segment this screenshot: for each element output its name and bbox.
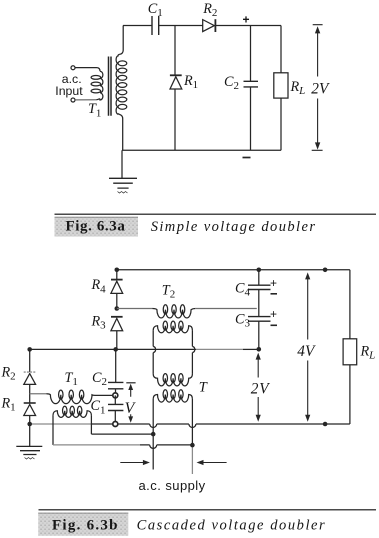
wire bottom rail <box>122 149 281 151</box>
node A (C1/R1/R2 junction) wire <box>174 26 176 76</box>
capacitor C2 (top) <box>250 26 252 82</box>
svg-text:Input: Input <box>55 84 83 98</box>
caption box <box>55 217 139 237</box>
wire primary bottom to terminal <box>75 99 96 101</box>
diode R1 (top) <box>170 74 182 76</box>
node C1C2 junction <box>113 393 118 398</box>
svg-text:R4: R4 <box>91 277 107 295</box>
wire top rail mid segment <box>159 25 203 27</box>
diode chain left: node top <box>27 347 32 352</box>
ac column right lower <box>191 399 193 447</box>
wire T2 upper to C3/C4 junction <box>195 308 256 310</box>
svg-text:RL: RL <box>290 79 306 97</box>
svg-text:C2: C2 <box>224 74 239 92</box>
transformer core <box>109 57 112 116</box>
svg-text:R2: R2 <box>202 1 217 19</box>
svg-text:Cascaded voltage doubler: Cascaded voltage doubler <box>137 518 327 534</box>
transformer T lower winding <box>153 395 192 403</box>
ac input terminal top <box>71 66 75 70</box>
svg-text:2V: 2V <box>251 380 270 397</box>
diode R3 <box>111 316 123 318</box>
diode R2 (top) <box>203 20 215 32</box>
svg-text:R1: R1 <box>183 73 198 91</box>
svg-text:C1: C1 <box>148 1 163 19</box>
wire top rail <box>117 269 350 271</box>
wire bottom rail with hops <box>30 423 91 425</box>
transformer T2 lower winding <box>153 326 192 333</box>
wire top rail right segment <box>215 25 281 27</box>
wire right side / load branch <box>349 270 351 339</box>
svg-text:R3: R3 <box>91 313 107 331</box>
svg-text:R2: R2 <box>1 365 16 383</box>
ac column left upper <box>152 330 154 346</box>
caption rule 2 <box>39 509 377 511</box>
wire secondary top to rail <box>119 26 123 55</box>
transformer T1 primary winding <box>96 71 103 100</box>
diode R1 (bottom ckt) <box>24 402 36 404</box>
svg-text:Fig. 6.3a: Fig. 6.3a <box>66 219 126 235</box>
svg-text:V: V <box>125 400 137 417</box>
hop arcs on bottom rail <box>150 424 196 428</box>
ground (top) <box>121 150 123 178</box>
svg-text:T1: T1 <box>88 101 101 119</box>
wire T1b lower-left down <box>52 415 54 445</box>
dimension 2V (bottom) <box>257 357 259 417</box>
wire R3R4 node to T2 <box>117 308 153 310</box>
resistor RL (bottom) <box>343 339 357 365</box>
ac supply arrow left <box>120 462 146 464</box>
wire line C with hop <box>53 444 140 446</box>
wire R1R2 junction to T1 <box>30 393 47 395</box>
svg-text:Simple voltage doubler: Simple voltage doubler <box>151 219 317 235</box>
wire mid rail <box>30 348 196 350</box>
svg-text:T1: T1 <box>65 370 78 388</box>
capacitor C2 (bottom) <box>113 347 118 352</box>
svg-text:R1: R1 <box>1 396 16 414</box>
dimension V <box>126 382 135 384</box>
ac column left to T <box>152 353 154 374</box>
resistor RL (top) <box>280 26 282 73</box>
dimension 2V <box>312 25 323 151</box>
svg-text:RL: RL <box>360 343 376 361</box>
node bottom-left <box>27 422 32 427</box>
node on right column (line C) <box>190 443 195 448</box>
node C3 bottom on mid rail <box>257 347 262 352</box>
wire top rail left segment <box>123 25 152 27</box>
svg-text:C2: C2 <box>92 370 107 388</box>
ac column left lower <box>152 399 154 470</box>
svg-text:a.c. supply: a.c. supply <box>139 478 206 493</box>
svg-text:Fig. 6.3b: Fig. 6.3b <box>52 518 119 534</box>
svg-text:4V: 4V <box>297 343 316 360</box>
svg-text:2V: 2V <box>311 81 330 98</box>
capacitor C4 <box>257 268 262 273</box>
transformer T1b lower winding <box>53 411 91 418</box>
capacitor C3 <box>248 317 271 322</box>
wire line B <box>91 433 153 435</box>
node C1 bottom <box>113 422 118 427</box>
svg-text:T2: T2 <box>162 283 175 301</box>
node bottom rail right <box>323 422 328 427</box>
transformer T1b upper winding <box>46 394 113 404</box>
transformer T1 secondary winding <box>116 54 123 150</box>
wire T1b lower-right down <box>90 415 92 434</box>
svg-text:C4: C4 <box>235 281 250 299</box>
dimension 4V <box>307 277 309 417</box>
diode chain R4 <box>115 268 120 273</box>
hop arc left column over mid rail <box>153 346 155 352</box>
transformer T2 upper winding <box>153 309 196 318</box>
minus sign top circuit <box>243 157 251 159</box>
capacitor C1 (bottom) <box>114 395 116 404</box>
wire R1 to bottom rail <box>174 89 176 150</box>
ac supply arrow right <box>200 462 226 464</box>
capacitor C1 <box>152 16 159 35</box>
caption rule <box>55 213 377 215</box>
diode R2 (bottom ckt) <box>29 349 31 372</box>
ac column right upper <box>191 330 193 346</box>
node on left column (line B) <box>151 432 156 437</box>
wire terminal to primary top <box>75 68 100 72</box>
svg-text:+: + <box>270 307 277 321</box>
svg-text:T: T <box>199 379 208 395</box>
node top rail above C4 <box>323 268 328 273</box>
svg-text:+: + <box>243 13 250 27</box>
ac column right to T <box>191 353 193 374</box>
hop arc right column over mid rail <box>192 346 194 352</box>
transformer T upper winding <box>153 374 192 386</box>
svg-text:C1: C1 <box>91 398 106 416</box>
svg-text:+: + <box>270 276 277 290</box>
ac input terminal bottom <box>71 98 75 102</box>
svg-text:C3: C3 <box>235 312 250 330</box>
caption box 2 <box>38 513 128 536</box>
ground (bottom ckt) <box>29 424 31 446</box>
node R3/R4 junction <box>115 306 120 311</box>
